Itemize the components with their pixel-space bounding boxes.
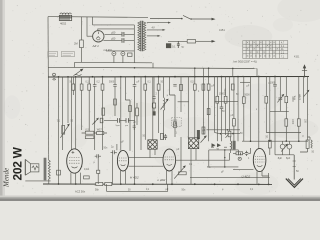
wire mains bottom cont [196,40,212,42]
wire drop tube4 [258,77,260,149]
wire drop x250.5 [250,77,252,142]
wire subbus y141.2 [242,140,308,142]
zigzag far right [311,140,312,148]
osc arrow [161,101,168,110]
wire drop x203.4 [202,77,204,135]
resistor below tube1 [84,176,90,179]
wire jumper y132.5 [266,132,301,134]
comp x101.5 [100,118,103,123]
IF2 leads [191,149,196,156]
wire trunk x134.5 [133,25,135,63]
wire drop tube1 plate [75,77,77,149]
volume pot [62,126,65,135]
wire x181 to box [180,137,182,172]
wire drop x68 [67,77,69,123]
diode cluster x154 [152,77,155,103]
comp x175-182 [174,122,177,125]
wire drop x87 to lamp [87,17,93,36]
svg-text:ACZ 50n: ACZ 50n [75,189,86,193]
dial lamp AZ1 [93,31,104,42]
wire drop x62.4 [61,77,63,150]
ground lead ticks [293,161,296,167]
resistor x103 upper [102,108,105,115]
cap hang x94.7 [93,77,97,150]
tube V4 [253,148,266,171]
table cell marks [247,42,279,57]
svg-text:202 W: 202 W [10,146,24,180]
resistor on x58.5 [57,170,61,175]
svg-text:1000: 1000 [219,94,225,96]
wire top bus [48,16,148,19]
wire corner y24.9 [93,24,135,26]
trimmer arrow leftmid [92,119,97,125]
wire loop mid vertical [224,150,226,167]
resistor x203 low [202,127,205,134]
resistor hang x225.6 [225,77,227,97]
trimmer block osc [152,111,155,115]
IF transformer 2 [188,138,198,149]
wire jumper y101.5 [215,101,238,103]
cap pair right of tube1 [95,154,101,158]
wire mains line top [150,18,181,20]
wire y177.7 [190,177,270,179]
wire drop x92.5 [92,17,94,25]
wire stub y82.3 [240,81,250,83]
antenna [304,66,306,77]
svg-text:8µF: 8µF [286,157,291,160]
wire comp leads tube4 [233,148,251,153]
resistor hang x233.9 [233,77,235,119]
svg-text:4151: 4151 [219,28,225,32]
tube V2 cathode [121,165,126,166]
capacitor grid 2 [126,118,128,123]
svg-text:AZ 1: AZ 1 [92,44,100,48]
wire G2-main x232.8 [232,68,234,76]
trimmer arrow x294 [304,91,308,96]
wire jumper y133.6 [222,133,240,135]
left edge shadow [0,0,3,201]
misc value labels [57,82,315,192]
resistor hang x81.6 [81,77,83,84]
ground symbol [286,179,303,188]
svg-text:0,1Ω: 0,1Ω [84,168,89,171]
comp beside jacks [128,53,132,56]
wire mid link [82,132,107,134]
wire drop x125.4 [125,77,130,151]
resistor hang x232.8 [231,84,234,90]
cap hang x275 [273,77,277,133]
marks above loop [211,146,227,148]
wire elcap bus [275,154,294,156]
wire main bus [48,76,309,79]
capacitor mains [177,41,180,48]
wire drop x169.5 [170,77,176,122]
wire jack stems [114,56,123,63]
jack PU1 [112,52,116,56]
coil bar x198 [197,130,200,139]
wire loop box mid-right [209,150,239,167]
wire G1-G2 link [74,62,76,67]
resistor hang x194.8 [194,77,196,84]
ground lead [293,155,295,180]
resistor hang x102.5 [102,77,104,84]
electrolytic cap 2 [287,144,292,149]
tube V2 grid [119,158,127,161]
svg-text:2M: 2M [74,42,78,46]
wire lamp low lead [103,39,134,41]
wire drop x303.4 [302,77,304,103]
svg-text:µ50: µ50 [111,37,116,41]
wire drop x188.3 [187,77,189,138]
comp right tube3 [179,172,187,175]
electrolytic cap 1 [280,144,285,149]
tube V1 pins [71,173,81,184]
tube V1 AL4 [67,149,83,173]
resistor hang x243.8 [243,77,245,97]
svg-text:4052: 4052 [60,22,67,26]
switch label box 2 [61,52,74,57]
wire heater tap 3 [147,35,158,37]
resistor bus pair [96,182,103,185]
wire drop tube1 grid [71,77,73,150]
wire tube4 left lead [233,169,253,171]
jack PU2 [121,52,125,56]
svg-text:5µm: 5µm [116,125,120,127]
wire grid row [104,119,135,121]
wire G2 drop x153 [152,63,154,68]
wire bus G1 [75,61,152,64]
resistor 2M [80,40,84,48]
transformer T1 core [141,21,143,51]
bottom edge shadow [0,196,320,198]
cap hang x115 [113,77,117,116]
capacitor 5000pF lower [122,38,124,43]
wire mains line bottom [168,40,187,42]
resistor x115 upper [114,99,117,105]
wire drop osc x163.6 [163,77,165,98]
resistor x137 [136,103,138,108]
resistor mid3 [97,132,104,135]
wire x112.6 drop [112,154,114,184]
wire jumper y129.8 [207,129,241,131]
svg-text:bei 50Ω/220Γ = 4Δ: bei 50Ω/220Γ = 4Δ [234,59,257,63]
tube V1 grid [69,158,80,164]
wire y191 heater line [107,184,168,191]
IF transformer 1 [148,140,157,149]
svg-text:µ1000: µ1000 [269,81,276,84]
resistor hang x89.2 [88,77,90,84]
pot arrow right of tube3 [174,167,184,179]
small box x98 [97,170,100,173]
resistor far right [306,140,309,148]
resistor hang x266.3 [265,77,267,97]
wire drop x141 [140,77,142,150]
wire G2-main x208.6 [208,68,210,76]
wire x98 drop [97,158,99,184]
wire mains top cont [192,18,212,20]
wire jumper y101.8 left [178,101,189,103]
switch S1 [181,18,183,20]
wire jack bus [106,50,135,52]
cap hang x134 [133,77,137,184]
svg-text:4151: 4151 [294,56,300,59]
wire drop x181 [180,77,182,112]
wire lamp top lead [98,29,135,31]
IF1 leads [150,149,155,157]
svg-text:W57: W57 [97,129,103,132]
wire left border [47,17,50,155]
wire bus G2 [48,67,257,68]
IF3 leads [230,137,232,153]
wire jumper y111.3 [270,110,289,112]
resistor pair mid1 [85,131,94,134]
resistor mains [187,40,195,43]
voltage table [243,41,288,59]
node dots y141 [250,140,300,142]
resistor right column [268,140,271,148]
diode marks mid [212,143,222,147]
wire drop x81.5 [81,17,83,40]
resistor x130 mid [129,106,132,112]
resistor x208 mid [207,109,210,115]
output transformer core [44,158,46,181]
svg-text:50n: 50n [95,189,100,192]
wire drop x238 [237,77,239,142]
wire x275 to y155 [274,133,276,155]
wire speaker bottom [25,179,50,184]
wire heater tap 1 [147,22,169,24]
IF transformer 3 [230,141,233,149]
wire tube2-tube3 top [129,157,164,159]
wire heater tap 2 [147,29,163,31]
svg-text:0,1: 0,1 [172,45,176,49]
transformer T1 primary winding [138,22,140,51]
wire drop x152.8 [152,77,154,140]
wave trap arrow [74,74,82,75]
osc coil [164,98,165,141]
svg-text:8µF: 8µF [278,157,283,160]
trimmer arrow sq2 [201,137,206,143]
cap hang x221.5 [220,77,224,142]
wire tube3 right [176,153,230,160]
wire drop x58.5 [58,77,60,184]
wire far right drop [300,137,310,152]
node dots main bus [58,76,306,78]
comp above tube2 [133,124,136,130]
tube V1 plus mark [72,151,75,154]
comp above tube4 [236,152,243,155]
wire drop x307.5 [307,77,309,140]
tube V4 grid [255,156,265,162]
wire G2-main x194.8 [194,68,196,77]
resistor hang x145.3 [144,77,146,84]
tube V3 [163,149,176,171]
cluster marks right [227,129,229,131]
svg-text:L Δ62: L Δ62 [158,178,166,182]
tube V4 pins [257,171,269,184]
jack mid-right [238,157,241,160]
wire G2 end drop [256,69,258,77]
wire drop x229.5 [229,77,231,132]
fuse [166,44,171,48]
capacitor 5000pF upper [122,32,124,37]
tube V3 cathode [167,164,172,165]
node G2 dots [134,67,234,69]
wire tube2-tube3 low [129,165,164,167]
resistor hang x298.8 [298,77,300,119]
cap hang x175b [173,85,176,87]
tube V2 [117,150,128,171]
resistor x286 second [285,119,288,126]
wire drop tube2 [120,77,122,151]
resistor hang x158.6 [158,77,160,84]
comp x175 [174,122,177,128]
tube V2 pins [121,171,126,185]
resistor hang x208.6 [208,77,210,84]
trimmer arrow right low [281,145,286,151]
resistor mid2 [85,136,94,139]
dashed label box [172,118,182,127]
speaker [24,159,26,175]
wire lamp mid lead [105,33,135,35]
svg-text:2000: 2000 [291,97,293,103]
wire speaker top [48,154,50,160]
transformer T1 secondary winding [143,22,145,51]
wire drop x269.8 [269,77,271,140]
wire bottom bus [43,183,272,185]
comp between x161-167 [160,133,163,139]
node dots bottom bus [58,183,270,185]
svg-text:H 4Ω2: H 4Ω2 [130,176,139,180]
wire x188 x194 drops to bus [191,153,196,184]
wire resistor to bus [81,48,83,63]
tube V3 grid [165,157,174,160]
wire drop x214.6 [214,77,216,133]
resistor hang x203.4b [202,84,205,90]
tube V1 cathode [72,167,78,168]
wire G2-main x203.4 [202,68,204,76]
jack on bus [53,73,56,76]
svg-text:µm: µm [125,125,128,127]
switch contact mid [215,133,220,134]
capacitor grid 1 [117,118,119,123]
svg-text:5000: 5000 [109,82,115,84]
trimmer arrow x280 [278,77,282,112]
mains dropper coil L1 [59,13,71,21]
switch label box 1 [48,52,58,57]
resistor hang x188.3 [180,84,183,90]
resistor hang x217.3 [216,77,218,97]
svg-text:µ50: µ50 [111,31,116,35]
wire x116.9 drop [116,144,118,150]
cap pair 2 [111,150,117,154]
output transformer primary [48,160,50,180]
resistor hang x73.3 [72,77,74,84]
tube V3 pins [167,170,173,184]
svg-text:4V: 4V [152,26,155,30]
cap at loop right [239,153,241,156]
resistor hang x286.3 [285,77,287,97]
tube V4 cathode [257,165,263,166]
